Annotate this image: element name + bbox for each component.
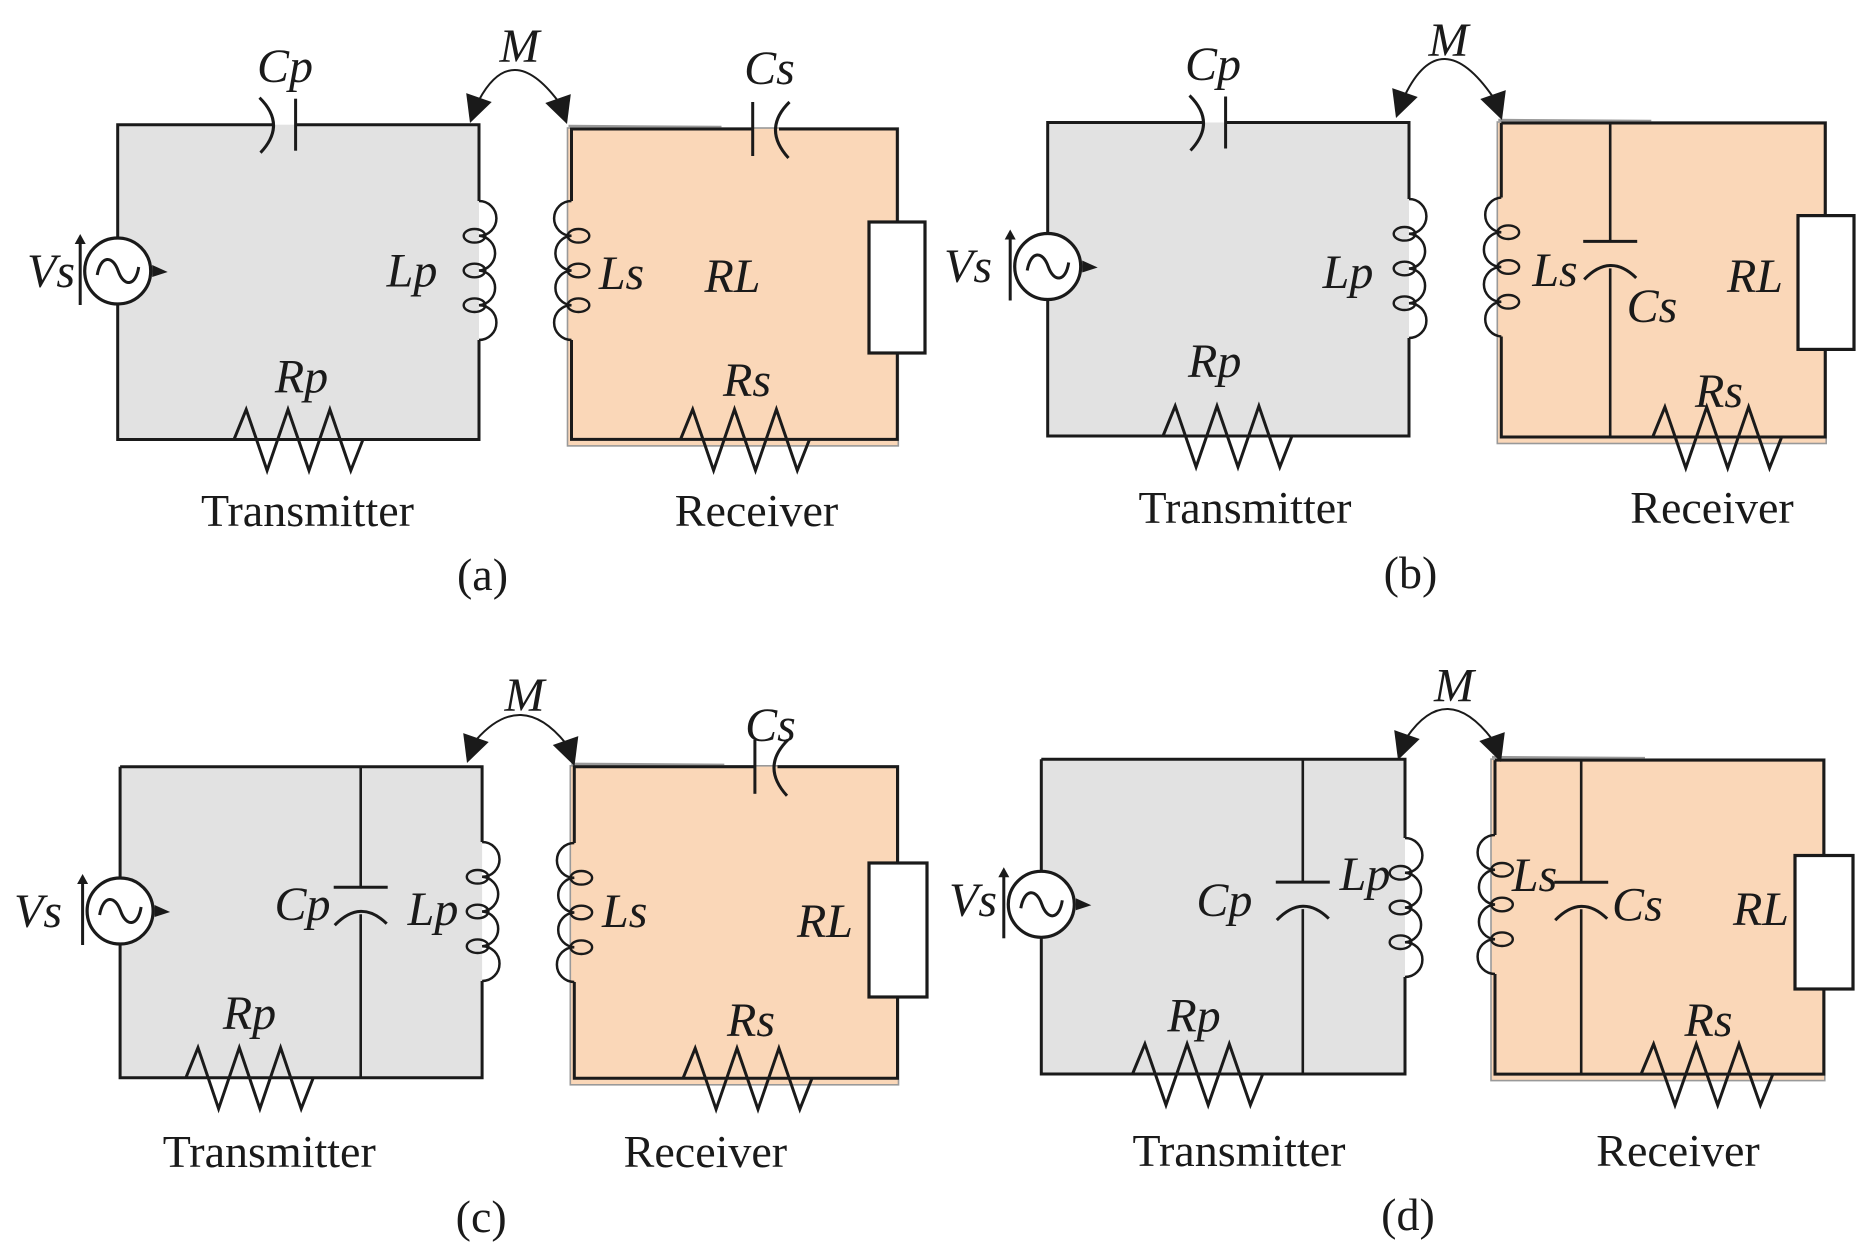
label Vs (b) [944, 240, 992, 293]
source polarity mark (d) [1076, 898, 1092, 910]
label Cp (b) [1185, 38, 1241, 91]
capacitor Cs (d) [1554, 882, 1608, 920]
svg-text:Rs: Rs [722, 354, 771, 407]
label (d) [1381, 1189, 1435, 1240]
mutual inductance arrow M (b) [1392, 59, 1506, 120]
label Receiver (d) [1596, 1125, 1759, 1176]
svg-text:Cs: Cs [1627, 280, 1678, 333]
label RL (a) [703, 250, 760, 303]
label Vs (d) [949, 874, 997, 927]
inductor Lp coil (d) [1390, 838, 1423, 977]
label Receiver (b) [1630, 482, 1793, 533]
source Vs circle (b) [1015, 234, 1081, 300]
inductor Lp coil (a) [464, 201, 497, 340]
resistor Rp (b) [1163, 406, 1292, 467]
svg-text:Ls: Ls [598, 247, 644, 300]
label RL (c) [796, 895, 853, 948]
resistor Rs (a) [681, 409, 810, 470]
source polarity mark (b) [1082, 261, 1098, 273]
label M (a) [499, 20, 543, 73]
svg-text:M: M [499, 20, 543, 73]
source Vs circle (a) [85, 238, 151, 304]
svg-text:Transmitter: Transmitter [201, 485, 414, 536]
svg-text:Vs: Vs [14, 885, 62, 938]
label RL (b) [1726, 250, 1783, 303]
capacitor Cs branch wire (d) [1580, 760, 1583, 1074]
label Lp (b) [1322, 246, 1374, 299]
label M (d) [1433, 660, 1477, 713]
label Transmitter (c) [163, 1126, 376, 1177]
label Lp (a) [386, 245, 438, 298]
label (b) [1384, 547, 1438, 598]
label RL (d) [1732, 883, 1789, 936]
svg-text:Ls: Ls [601, 885, 647, 938]
svg-text:Vs: Vs [944, 240, 992, 293]
capacitor Cs (b) [1583, 241, 1637, 279]
resistor Rs (c) [683, 1048, 812, 1109]
capacitor Cp branch wire (d) [1302, 759, 1305, 1074]
label Ls (a) [598, 247, 644, 300]
transmitter loop wire (a) [118, 125, 479, 440]
svg-text:Rp: Rp [222, 987, 276, 1040]
label Receiver (c) [624, 1126, 787, 1177]
svg-text:Lp: Lp [407, 883, 459, 936]
label Vs (c) [14, 885, 62, 938]
svg-text:Receiver: Receiver [624, 1126, 787, 1177]
svg-text:Cs: Cs [745, 699, 796, 752]
mutual inductance arrow M (d) [1394, 709, 1505, 762]
receiver loop wire (a) [568, 126, 899, 446]
label Lp (d) [1339, 848, 1391, 901]
label Cs (c) [745, 699, 796, 752]
svg-text:Ls: Ls [1511, 849, 1557, 902]
svg-text:(d): (d) [1381, 1189, 1435, 1240]
svg-text:(b): (b) [1384, 547, 1438, 598]
capacitor Cs (c) [755, 740, 788, 796]
label M (b) [1428, 14, 1472, 67]
label Cp (a) [257, 40, 313, 93]
svg-text:Cp: Cp [274, 878, 330, 931]
svg-text:Rs: Rs [1694, 365, 1743, 418]
svg-text:Receiver: Receiver [1630, 482, 1793, 533]
label Rs (d) [1684, 994, 1733, 1047]
inductor Ls coil (a) [554, 201, 589, 340]
svg-text:Transmitter: Transmitter [1133, 1125, 1346, 1176]
transmitter loop wire (d) [1041, 759, 1405, 1074]
svg-text:Cp: Cp [1185, 38, 1241, 91]
label Rp (a) [274, 351, 328, 404]
source Vs reference arrow (c) [77, 874, 88, 945]
label Receiver (a) [675, 485, 838, 536]
svg-text:Lp: Lp [1322, 246, 1374, 299]
svg-text:Lp: Lp [1339, 848, 1391, 901]
label Cp (c) [274, 878, 330, 931]
svg-text:Rp: Rp [274, 351, 328, 404]
svg-text:M: M [1428, 14, 1472, 67]
svg-text:(a): (a) [457, 549, 508, 600]
source polarity mark (c) [155, 905, 171, 917]
svg-text:Rp: Rp [1187, 335, 1241, 388]
load RL rectangle (c) [869, 863, 927, 997]
label Rp (d) [1166, 990, 1220, 1043]
inductor Lp coil (c) [467, 842, 500, 981]
capacitor Cp branch wire (c) [359, 767, 362, 1078]
svg-text:RL: RL [1732, 883, 1789, 936]
source Vs circle (c) [87, 878, 153, 944]
mutual inductance arrow M (a) [466, 70, 571, 124]
label Rp (b) [1187, 335, 1241, 388]
svg-text:Rs: Rs [1684, 994, 1733, 1047]
label Cs (b) [1627, 280, 1678, 333]
label Ls (b) [1531, 244, 1577, 297]
svg-text:Cs: Cs [744, 42, 795, 95]
source Vs circle (d) [1008, 871, 1074, 937]
capacitor Cp (c) [334, 887, 388, 925]
label (c) [456, 1191, 507, 1242]
svg-text:Vs: Vs [27, 245, 75, 298]
label M (c) [504, 669, 548, 722]
label Ls (c) [601, 885, 647, 938]
resistor Rs (b) [1653, 407, 1782, 468]
svg-text:Cs: Cs [1612, 879, 1663, 932]
svg-text:Rs: Rs [726, 994, 775, 1047]
label Rs (a) [722, 354, 771, 407]
svg-text:Receiver: Receiver [1596, 1125, 1759, 1176]
svg-text:RL: RL [703, 250, 760, 303]
svg-text:Vs: Vs [949, 874, 997, 927]
label Rp (c) [222, 987, 276, 1040]
svg-text:RL: RL [796, 895, 853, 948]
receiver loop wire (b) [1497, 120, 1826, 444]
source Vs reference arrow (b) [1005, 230, 1016, 301]
source polarity mark (a) [152, 265, 168, 277]
svg-text:Receiver: Receiver [675, 485, 838, 536]
svg-text:M: M [504, 669, 548, 722]
load RL rectangle (b) [1798, 216, 1854, 350]
mutual inductance arrow M (c) [463, 715, 578, 766]
load RL rectangle (a) [869, 222, 925, 353]
label (a) [457, 549, 508, 600]
inductor Ls coil (d) [1478, 835, 1513, 974]
label Rs (b) [1694, 365, 1743, 418]
inductor Lp coil (b) [1394, 199, 1427, 338]
source Vs reference arrow (d) [998, 867, 1009, 938]
transmitter loop wire (b) [1048, 123, 1409, 437]
resistor Rp (c) [186, 1048, 313, 1109]
receiver loop wire (d) [1491, 757, 1825, 1081]
label Vs (a) [27, 245, 75, 298]
capacitor Cs branch wire (b) [1609, 123, 1612, 437]
capacitor Cp (b) [1190, 96, 1226, 151]
capacitor Cp (d) [1276, 882, 1330, 920]
inductor Ls coil (b) [1484, 198, 1519, 337]
source Vs reference arrow (a) [75, 234, 86, 305]
label Transmitter (a) [201, 485, 414, 536]
label Rs (c) [726, 994, 775, 1047]
label Transmitter (d) [1133, 1125, 1346, 1176]
svg-text:RL: RL [1726, 250, 1783, 303]
label Lp (c) [407, 883, 459, 936]
svg-text:Cp: Cp [257, 40, 313, 93]
resistor Rp (d) [1133, 1044, 1263, 1105]
label Cs (d) [1612, 879, 1663, 932]
capacitor Cs (a) [753, 102, 790, 158]
resistor Rs (d) [1641, 1044, 1773, 1105]
receiver loop wire (c) [570, 764, 898, 1085]
svg-text:Transmitter: Transmitter [163, 1126, 376, 1177]
svg-text:Transmitter: Transmitter [1139, 482, 1352, 533]
label Cp (d) [1196, 874, 1252, 927]
svg-text:Rp: Rp [1166, 990, 1220, 1043]
load RL rectangle (d) [1795, 856, 1853, 990]
svg-text:Ls: Ls [1531, 244, 1577, 297]
label Ls (d) [1511, 849, 1557, 902]
svg-text:Cp: Cp [1196, 874, 1252, 927]
svg-text:(c): (c) [456, 1191, 507, 1242]
resistor Rp (a) [234, 410, 363, 471]
transmitter loop wire (c) [120, 767, 482, 1078]
svg-text:M: M [1433, 660, 1477, 713]
capacitor Cp (a) [260, 98, 296, 153]
svg-text:Lp: Lp [386, 245, 438, 298]
label Transmitter (b) [1139, 482, 1352, 533]
label Cs (a) [744, 42, 795, 95]
inductor Ls coil (c) [557, 843, 592, 982]
